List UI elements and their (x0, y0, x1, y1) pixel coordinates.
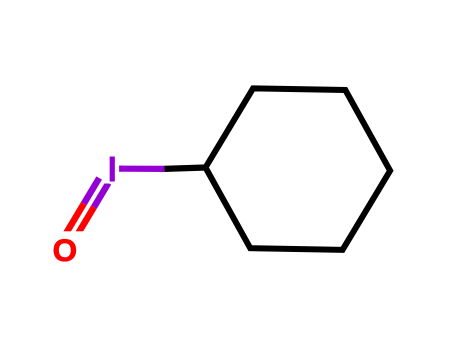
svg-text:I: I (107, 148, 117, 189)
svg-text:O: O (53, 232, 78, 268)
